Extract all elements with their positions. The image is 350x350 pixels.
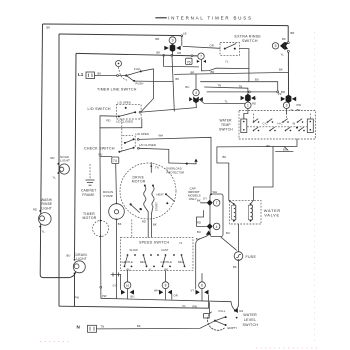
connector plug N [88, 325, 97, 332]
switch check [84, 136, 139, 153]
svg-text:INTERNAL TIMER BUSS: INTERNAL TIMER BUSS [168, 16, 253, 21]
svg-text:BK: BK [47, 26, 51, 30]
svg-text:4: 4 [216, 225, 218, 229]
svg-text:BK: BK [98, 72, 102, 76]
svg-text:74: 74 [179, 241, 183, 245]
mechanical link dashed motor [131, 220, 133, 238]
wire contact7 to right buss [216, 67, 249, 69]
svg-text:PUMP: PUMP [104, 194, 113, 198]
wire from node 171 down to lid switch area [172, 55, 174, 111]
svg-text:BK: BK [118, 222, 122, 226]
svg-text:5: 5 [275, 44, 277, 48]
svg-text:YL: YL [281, 53, 285, 57]
svg-text:WATER: WATER [220, 118, 233, 122]
wire cap box to fuse area [221, 237, 237, 250]
mechanical link dashed [121, 119, 123, 151]
svg-text:BU: BU [131, 294, 135, 298]
switch water level [204, 303, 259, 331]
wire pump to bottom bus [116, 219, 118, 298]
wire right feeder to contact 6 [196, 235, 209, 289]
svg-text:TN: TN [218, 83, 222, 87]
svg-text:BU: BU [186, 85, 190, 89]
scan artifact dots bottom left [40, 341, 72, 343]
svg-text:FRAME: FRAME [82, 193, 94, 197]
node terminal [249, 91, 251, 93]
svg-text:ONLY: ONLY [189, 197, 197, 201]
wire lid switch to contact 4 [141, 108, 197, 113]
svg-text:L/D OPEN: L/D OPEN [136, 132, 149, 136]
svg-text:LIGHT: LIGHT [42, 207, 52, 211]
svg-text:YL: YL [53, 176, 57, 180]
lamp wash rinse light [33, 198, 52, 234]
svg-text:FULL: FULL [219, 309, 226, 313]
terminal box cap import [188, 186, 223, 236]
wire contact 6 right to border end [208, 295, 210, 308]
overload protector [166, 159, 198, 175]
wire temp box bu stub [276, 150, 294, 152]
svg-text:VALVE: VALVE [264, 212, 279, 217]
svg-text:BN: BN [297, 108, 301, 112]
wire valve right coil bend [250, 200, 253, 204]
wire contact9 to extra rinse [183, 46, 220, 48]
svg-text:WH: WH [159, 133, 164, 137]
svg-text:BU: BU [226, 231, 230, 235]
wire stub below node [163, 55, 165, 62]
wire lid switch left drop [99, 116, 101, 157]
svg-text:76: 76 [187, 60, 191, 64]
svg-text:BU: BU [99, 153, 103, 157]
svg-text:OR: OR [210, 43, 214, 47]
svg-text:BU: BU [283, 147, 287, 151]
svg-text:LIGHT: LIGHT [60, 159, 70, 163]
svg-text:74: 74 [113, 159, 117, 163]
svg-text:BR: BR [291, 31, 295, 35]
svg-text:BU: BU [67, 253, 71, 257]
terminal box 76 [186, 58, 192, 64]
node terminal [163, 54, 165, 56]
svg-text:1: 1 [247, 104, 249, 108]
svg-text:BR: BR [156, 37, 160, 41]
svg-text:SWITCH: SWITCH [219, 128, 233, 132]
svg-text:YL: YL [291, 108, 295, 112]
svg-text:CHECK SWITCH: CHECK SWITCH [84, 146, 115, 150]
svg-text:L/D SWITCH: L/D SWITCH [88, 107, 111, 111]
wire from FULL contact down [141, 69, 154, 112]
svg-text:BK: BK [153, 223, 157, 227]
svg-text:9: 9 [172, 39, 174, 43]
svg-text:GY: GY [113, 284, 117, 288]
wire third rect top [76, 53, 197, 56]
wire second rect left [58, 34, 60, 306]
switch speed assembly [121, 237, 200, 271]
svg-text:BU: BU [255, 78, 259, 82]
svg-text:BK: BK [157, 50, 161, 54]
svg-text:BR: BR [191, 70, 195, 74]
svg-text:RD: RD [252, 101, 256, 105]
valve water [229, 200, 281, 224]
svg-text:L/D CLOSED: L/D CLOSED [116, 120, 133, 124]
svg-text:SWITCH: SWITCH [242, 39, 258, 43]
svg-text:WATER: WATER [243, 313, 257, 317]
node terminal [287, 42, 289, 44]
svg-text:GENTLE: GENTLE [161, 260, 172, 264]
svg-text:7: 7 [216, 201, 218, 205]
svg-text:YL: YL [225, 60, 229, 64]
svg-text:PK: PK [165, 267, 169, 271]
ground cabinet frame [81, 164, 97, 197]
svg-text:BR: BR [211, 70, 215, 74]
wire horizontal y128 [100, 127, 142, 129]
svg-text:BK: BK [233, 265, 237, 269]
svg-text:TN: TN [239, 85, 243, 89]
switch extra rinse [220, 35, 261, 56]
svg-text:RD: RD [33, 207, 37, 211]
node terminal [191, 55, 193, 57]
timer contact 1 [241, 94, 257, 109]
motor timer [83, 212, 109, 237]
node terminal [117, 75, 119, 77]
wire BR run to right buss [174, 72, 288, 74]
svg-text:START: START [155, 202, 159, 211]
switch timer line [125, 67, 143, 85]
lid switch lower [123, 132, 164, 147]
wire valve to fuse [238, 224, 240, 252]
fuse [234, 251, 256, 261]
wire check switch left [100, 156, 112, 158]
svg-text:L1: L1 [78, 72, 84, 77]
svg-text:PK: PK [278, 92, 282, 96]
svg-text:TN: TN [101, 325, 105, 329]
svg-text:PL: PL [183, 304, 187, 308]
timer contact 4 [186, 85, 203, 103]
svg-text:H-C: H-C [278, 122, 283, 126]
svg-text:MOTOR: MOTOR [132, 180, 146, 184]
svg-text:BK: BK [197, 198, 201, 202]
wire left buss [40, 24, 76, 278]
wire from PUSH contact to vertical [135, 80, 173, 83]
svg-text:PW: PW [193, 305, 198, 309]
scan artifact dots bottom right [256, 347, 318, 349]
svg-text:RD: RD [107, 118, 111, 122]
svg-text:BK: BK [223, 155, 227, 159]
node terminal [287, 50, 289, 52]
svg-text:PW: PW [75, 295, 80, 299]
wire contact4 feed [195, 74, 197, 89]
lamp soak light [51, 155, 71, 180]
svg-text:BU: BU [197, 230, 201, 234]
svg-text:MOTOR: MOTOR [83, 216, 97, 220]
svg-text:SPEED SWITCH: SPEED SWITCH [139, 241, 170, 245]
node terminal [171, 55, 173, 57]
wire contact4 to contact1 [199, 99, 244, 103]
wire lid sw right short vertical [141, 119, 143, 128]
wire box74 to drain pump [115, 164, 118, 204]
svg-text:FAST: FAST [162, 248, 169, 252]
svg-text:SLOW: SLOW [130, 248, 139, 252]
svg-text:TEMP: TEMP [221, 123, 231, 127]
node terminal [181, 35, 183, 37]
timer contact 5 [272, 37, 288, 57]
terminal box 74 [112, 157, 119, 164]
wire contact3 stub into temp box [286, 109, 288, 114]
svg-text:7: 7 [200, 55, 202, 59]
wire bottom bus [101, 298, 235, 310]
wire lid sw lower to cap box [139, 137, 211, 194]
wire motor to speed switch pair [148, 212, 151, 238]
svg-text:OVERLOAD: OVERLOAD [166, 166, 182, 170]
svg-text:BK: BK [137, 324, 141, 328]
wire bottom border [59, 306, 209, 308]
svg-text:LIGHT: LIGHT [76, 257, 87, 261]
motor drain pump [103, 190, 124, 221]
wire extra rinse right drop [240, 49, 249, 82]
svg-text:BK: BK [279, 67, 283, 71]
svg-text:BK: BK [176, 77, 180, 81]
wire long run upper [201, 82, 278, 91]
node INTERNAL TIMER BUSS callout [155, 16, 252, 21]
wire timer motor to bottom bus [100, 236, 102, 298]
node terminal [277, 91, 279, 93]
svg-text:BU: BU [127, 267, 131, 271]
switch water temp assembly [219, 110, 316, 139]
wire fuse down to water level switch [236, 260, 239, 310]
svg-text:RD: RD [142, 219, 146, 223]
svg-text:4: 4 [195, 91, 197, 95]
svg-text:FULL: FULL [134, 67, 141, 71]
connector plug L1 [86, 72, 95, 79]
svg-text:10: 10 [126, 284, 130, 288]
wire temp box bottom run [217, 139, 297, 204]
wire right buss lower [287, 52, 289, 96]
svg-text:FUSE: FUSE [246, 255, 257, 259]
lamp drain light [67, 253, 88, 274]
svg-text:PROTECTOR: PROTECTOR [167, 170, 185, 174]
svg-text:PUSH: PUSH [136, 82, 144, 86]
svg-text:LB: LB [183, 32, 187, 36]
lid switch upper [100, 100, 141, 123]
svg-text:PW: PW [102, 294, 107, 298]
svg-text:EMPTY: EMPTY [228, 326, 238, 330]
wire second rect top [59, 34, 182, 36]
svg-text:PW: PW [252, 96, 257, 100]
timer contact 6 [191, 274, 209, 301]
svg-text:3: 3 [286, 104, 288, 108]
svg-text:W: W [293, 122, 296, 126]
wire TN run to contact 1 [205, 87, 248, 95]
svg-text:PW: PW [297, 103, 302, 107]
svg-text:OR: OR [177, 51, 181, 55]
timer contact 9 [156, 32, 187, 58]
svg-text:BK: BK [282, 37, 286, 41]
svg-text:HEAT: HEAT [157, 193, 165, 197]
timer contact 10 [113, 282, 135, 299]
svg-text:8: 8 [165, 284, 167, 288]
wire top buss L1 [43, 24, 289, 26]
wire long run lower [207, 91, 277, 93]
svg-text:YL: YL [149, 267, 153, 271]
timer contact 8 [154, 282, 178, 300]
svg-text:L/D OPEN: L/D OPEN [118, 100, 131, 104]
svg-text:EXTRA RINSE: EXTRA RINSE [235, 35, 262, 39]
timer contact 3 [283, 102, 301, 112]
svg-text:6: 6 [201, 284, 203, 288]
wire L1 to timer line switch [95, 75, 127, 77]
svg-text:TL: TL [225, 100, 229, 104]
svg-text:WH: WH [154, 288, 159, 292]
timer contact 7 [197, 53, 216, 71]
wire right buss upper [287, 26, 289, 42]
svg-text:TIMER LINE SWITCH: TIMER LINE SWITCH [97, 88, 137, 92]
timer contact 7 cap [197, 196, 220, 206]
svg-text:WH: WH [213, 190, 218, 194]
svg-text:LEVEL: LEVEL [244, 318, 256, 322]
svg-text:GY: GY [203, 196, 207, 200]
wire N run to water level switch [97, 321, 215, 329]
svg-text:OR: OR [174, 293, 178, 297]
wire contact1 stub into temp box [244, 109, 248, 119]
svg-text:YL: YL [42, 230, 46, 234]
motor drive [120, 163, 176, 220]
svg-text:BK: BK [267, 144, 271, 148]
wire stub loop below third rect [164, 62, 199, 67]
svg-text:TN: TN [155, 165, 159, 169]
svg-text:VT: VT [191, 288, 195, 292]
wire timer motor feed [99, 157, 102, 237]
svg-text:GENTLE: GENTLE [122, 260, 133, 264]
wire contact4 down to lid wire [195, 103, 197, 108]
timer cam circle [116, 61, 128, 81]
wire speed switch outputs down [128, 271, 166, 282]
connector inline bottom left [111, 273, 121, 290]
timer contact junction right buss [278, 92, 296, 103]
wire third rect left going to drain light [75, 53, 77, 258]
svg-text:L/D CLOSED: L/D CLOSED [139, 143, 156, 147]
scan artifact dots right [314, 32, 316, 344]
svg-text:SWITCH: SWITCH [243, 323, 259, 327]
junction arrow speed feeder [206, 231, 211, 235]
svg-text:RD: RD [197, 220, 201, 224]
timer contact 4 cap [197, 211, 220, 234]
svg-text:RD: RD [51, 156, 55, 160]
wire drain light to bottom border [74, 274, 76, 307]
wire check switch right run [139, 148, 169, 163]
